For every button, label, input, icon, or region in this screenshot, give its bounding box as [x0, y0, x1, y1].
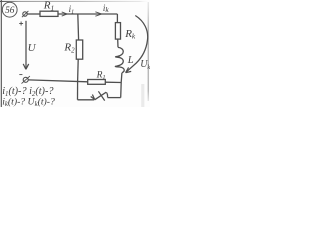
switch S blade with opening cross [91, 91, 108, 100]
wire R2 bottom down [77, 59, 80, 81]
wire switch branch left [78, 99, 95, 101]
wire right corner down [116, 14, 118, 23]
wire node A down to R2 [77, 14, 80, 40]
wire bottom rail right [105, 81, 121, 83]
resistor R3 (bottom, bypassed by switch) [88, 80, 106, 85]
frame border top [0, 0, 150, 2]
current arrow ik [95, 12, 101, 16]
svg-text:L: L [127, 55, 134, 66]
svg-text:56: 56 [5, 6, 15, 16]
svg-text:ik(t)-? Uk(t)-?: ik(t)-? Uk(t)-? [2, 96, 55, 107]
wire bottom rail left [28, 80, 87, 82]
voltage arrow U [23, 21, 29, 70]
minus sign [19, 74, 22, 76]
wire switch branch left drop [77, 82, 79, 100]
inductor L coil [115, 47, 124, 73]
wire coil bottom down [120, 73, 123, 83]
plus sign [19, 22, 23, 26]
svg-text:U: U [28, 42, 37, 54]
voltage arc arrow Uk [126, 16, 148, 73]
frame border right [147, 2, 149, 101]
wire switch branch right riser [120, 82, 123, 97]
resistor R2 [76, 40, 82, 59]
source terminal top (+) [22, 11, 29, 17]
wire top rail middle [58, 13, 117, 15]
wire switch branch right [108, 97, 121, 99]
resistor R1 [40, 11, 58, 16]
page shadow bottom right [141, 84, 144, 107]
wire Rk to coil [117, 39, 119, 47]
frame border left [0, 0, 2, 107]
wire top rail left [27, 13, 40, 15]
variant number circle 56 [2, 2, 17, 17]
source terminal bottom (-) [22, 76, 30, 84]
current arrow i1 [62, 12, 67, 16]
resistor Rk [115, 23, 120, 39]
svg-text:ik: ik [103, 3, 110, 14]
